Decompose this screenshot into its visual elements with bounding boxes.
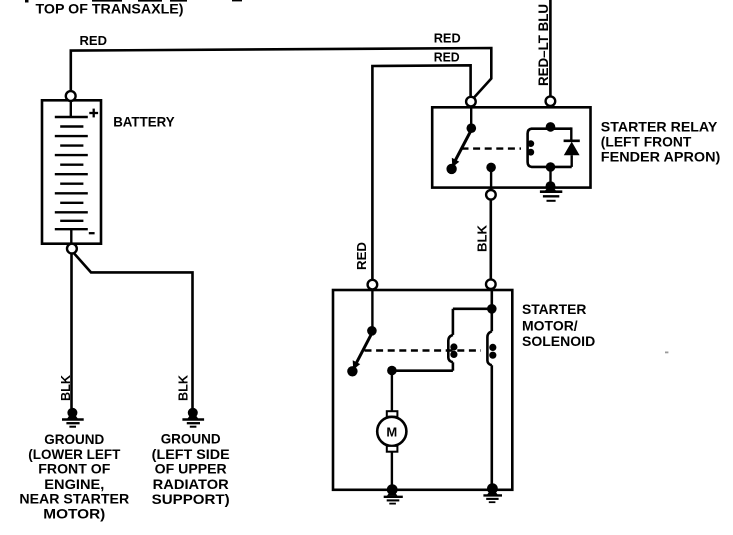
relay coil (527, 122, 555, 172)
svg-text:RED: RED (434, 31, 461, 46)
wire starter right terminal down (487, 289, 497, 332)
battery cells (55, 100, 88, 243)
wire battery negative to left ground (BLK) (70, 253, 73, 408)
solenoid pull-in coil (left) (448, 335, 457, 362)
solenoid hold-in coil (right) (487, 331, 496, 365)
scanner speck (665, 352, 668, 354)
note text TOP OF TRANSAXLE (36, 1, 184, 17)
svg-text:RADIATOR: RADIATOR (153, 476, 229, 492)
wire relay to starter solenoid (BLK) (489, 200, 492, 280)
label BLK (right ground wire, rotated) (175, 374, 190, 401)
label GROUND (LEFT SIDE OF UPPER RADIATOR SUPPORT) (152, 430, 230, 507)
ground (radiator support) (182, 408, 204, 427)
label STARTER RELAY (LEFT FRONT FENDER APRON) (601, 118, 721, 164)
label BLK (relay to starter, rotated) (475, 224, 490, 252)
svg-text:BLK: BLK (58, 374, 73, 401)
ground (starter solenoid) (483, 483, 502, 502)
label GROUND (LOWER LEFT FRONT OF ENGINE, NEAR STARTER MOTOR) (19, 431, 129, 522)
svg-text:TOP OF TRANSAXLE): TOP OF TRANSAXLE) (36, 1, 184, 17)
wire battery negative to right ground (BLK) (74, 254, 192, 409)
starter terminal (top right) (486, 279, 496, 289)
motor M (377, 411, 406, 451)
relay terminal (bottom) (486, 190, 496, 200)
svg-text:GROUND: GROUND (44, 431, 104, 447)
svg-text:NEAR STARTER: NEAR STARTER (19, 491, 129, 507)
svg-text:ENGINE,: ENGINE, (44, 476, 104, 492)
svg-text:STARTER: STARTER (522, 301, 586, 317)
wire motor to ground (391, 452, 393, 490)
svg-text:BATTERY: BATTERY (113, 114, 175, 130)
svg-text:(LOWER LEFT: (LOWER LEFT (28, 446, 120, 462)
label BLK (left ground wire, rotated) (58, 374, 73, 401)
relay actuating dashed line (462, 147, 522, 149)
svg-text:OF UPPER: OF UPPER (155, 461, 227, 477)
svg-text:M: M (386, 424, 397, 439)
ground (engine) (62, 408, 84, 427)
starter terminal (top left) (368, 280, 378, 290)
svg-text:RED: RED (354, 242, 369, 270)
label BATTERY (113, 114, 175, 130)
svg-text:RED: RED (80, 33, 108, 48)
wire junction to pull-in coil (453, 309, 492, 335)
wire node to motor (391, 371, 393, 413)
svg-text:(LEFT SIDE: (LEFT SIDE (152, 446, 230, 462)
wire RED-LT BLU from top to relay (549, 0, 552, 96)
svg-text:BLK: BLK (475, 224, 490, 252)
svg-text:SUPPORT): SUPPORT) (152, 491, 230, 507)
wire solenoid to bottom right ground (490, 365, 493, 489)
starter relay box (432, 107, 590, 187)
svg-text:GROUND: GROUND (161, 430, 221, 446)
svg-text:RED–LT BLU: RED–LT BLU (536, 4, 551, 86)
svg-text:FRONT OF: FRONT OF (38, 461, 110, 477)
wire coil bottom to motor node (387, 362, 453, 375)
svg-text:FENDER APRON): FENDER APRON) (601, 148, 721, 164)
svg-text:MOTOR/: MOTOR/ (522, 317, 578, 333)
relay terminal (top left) (466, 97, 476, 107)
svg-text:BLK: BLK (175, 374, 190, 401)
battery plus mark (89, 109, 98, 118)
svg-text:MOTOR): MOTOR) (43, 506, 105, 522)
svg-text:RED: RED (434, 50, 460, 65)
ground (starter motor) (384, 484, 403, 503)
battery box (42, 100, 101, 243)
svg-text:SOLENOID: SOLENOID (522, 333, 595, 349)
label RED (battery feed) (80, 33, 108, 48)
label RED (lower at relay) (434, 50, 460, 65)
battery terminal (bottom) (67, 244, 77, 254)
battery terminal (top) (66, 91, 76, 101)
wire battery positive to starter relay (RED) (71, 48, 492, 97)
relay output node to BLK terminal (486, 163, 496, 191)
clipped text fragments at top edge (25, 0, 242, 3)
starter actuating dashed line (365, 349, 482, 351)
starter motor/solenoid box (333, 290, 512, 490)
label STARTER MOTOR/SOLENOID (522, 301, 595, 349)
relay terminal (top right) (546, 96, 556, 106)
label RED (wire into starter, rotated) (354, 242, 369, 270)
label RED-LT BLU (rotated) (536, 4, 551, 86)
starter solenoid switch contacts (347, 289, 377, 376)
wire relay terminal to starter motor (RED) (372, 65, 470, 280)
svg-text:STARTER RELAY: STARTER RELAY (601, 118, 718, 134)
diode D1 across relay coil (551, 127, 580, 166)
battery minus mark (89, 232, 95, 234)
svg-text:(LEFT FRONT: (LEFT FRONT (601, 133, 692, 149)
ground (relay coil) (540, 167, 562, 201)
relay switch contacts (446, 106, 476, 174)
label RED (upper at relay) (434, 31, 461, 46)
